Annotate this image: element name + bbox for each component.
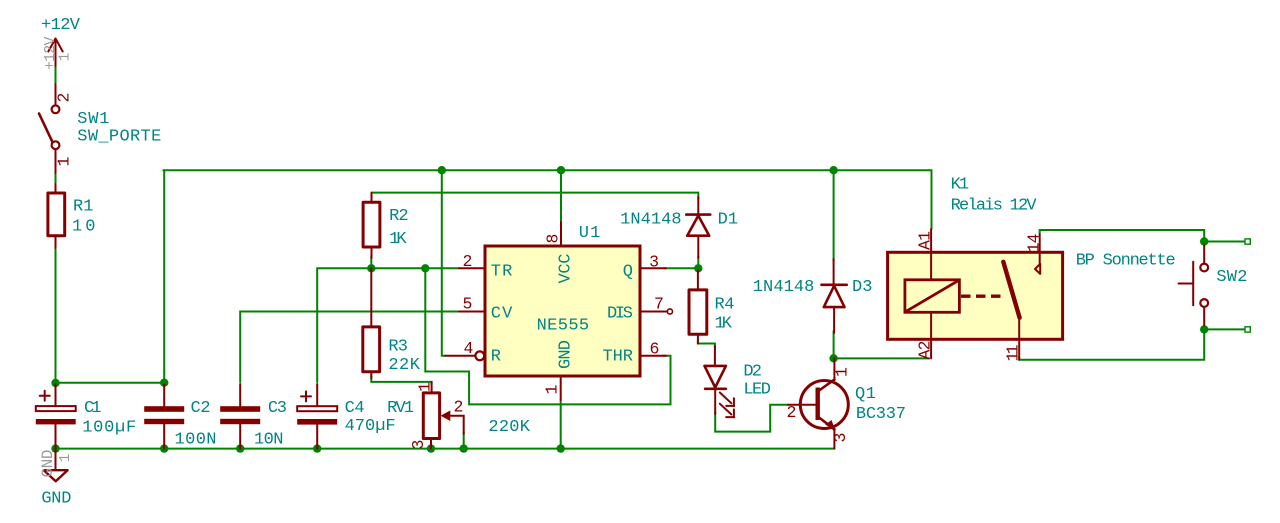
svg-text:R2: R2 (389, 207, 409, 226)
svg-text:R: R (491, 348, 501, 367)
svg-text:1N4148: 1N4148 (753, 278, 815, 297)
wire LED cathode to Q1 base (715, 405, 788, 432)
pin 6 THR (640, 355, 666, 357)
svg-text:220K: 220K (488, 418, 530, 437)
wire Q pin3 to D1/R4 junction (664, 267, 698, 269)
relay coil diagonal (906, 280, 959, 311)
wire TR junction to THR routing under IC (425, 268, 670, 404)
svg-text:1K: 1K (389, 230, 407, 249)
svg-text:SW1: SW1 (77, 110, 109, 129)
svg-text:11: 11 (1004, 344, 1023, 361)
wire RV1 wiper drop to bus (463, 432, 465, 449)
svg-text:LED: LED (743, 381, 771, 400)
junction top bus at reset riser (438, 166, 446, 174)
resistor R2 (363, 193, 380, 258)
svg-text:GND: GND (557, 340, 576, 369)
relay pin 14 (1039, 234, 1041, 264)
wire top VCC bus (163, 170, 931, 229)
junction TR at R2/R3 (367, 264, 375, 272)
svg-text:VCC: VCC (557, 254, 576, 284)
svg-text:22K: 22K (388, 356, 420, 375)
svg-text:C2: C2 (191, 399, 211, 418)
wire bottom GND bus (56, 448, 835, 450)
svg-text:BC337: BC337 (856, 405, 906, 424)
pin 7 DIS with open end (640, 311, 667, 313)
relay K1 body (888, 252, 1063, 339)
svg-text:D3: D3 (852, 278, 873, 297)
svg-text:14: 14 (1025, 233, 1044, 252)
wire relay pin14 to SW2 top (1040, 230, 1205, 242)
svg-text:SW_PORTE: SW_PORTE (77, 128, 161, 147)
svg-text:3: 3 (409, 440, 428, 450)
wire TR net: pin2 to C4 riser (317, 268, 459, 382)
junction C2 bottom (160, 444, 168, 452)
svg-text:2: 2 (454, 398, 464, 417)
wire SW1 to R1 (55, 171, 57, 185)
wire relay A2 to collector junction (834, 357, 929, 359)
capacitor C1 (36, 384, 76, 449)
svg-text:8: 8 (544, 234, 563, 244)
LED D2 (705, 346, 735, 417)
svg-text:1K: 1K (715, 315, 733, 334)
wire SW2 top terminal stub (1204, 241, 1245, 243)
svg-text:C3: C3 (268, 399, 287, 418)
svg-text:GND: GND (41, 490, 71, 509)
svg-text:THR: THR (603, 348, 634, 367)
svg-text:Relais 12V: Relais 12V (951, 197, 1038, 216)
svg-text:NE555: NE555 (537, 316, 590, 335)
svg-text:RV1: RV1 (387, 399, 414, 418)
svg-text:1: 1 (55, 157, 74, 167)
junction IC GND pin (557, 444, 565, 452)
pin 2 TR (459, 267, 485, 269)
wire R1 to C1 junction (55, 247, 57, 383)
svg-text:7: 7 (654, 295, 664, 314)
svg-text:470µF: 470µF (345, 417, 396, 436)
svg-text:3: 3 (831, 433, 850, 443)
capacitor C2 (144, 384, 184, 449)
junction top bus at D3 (829, 166, 837, 174)
junction SW2 top (1200, 237, 1208, 245)
svg-text:2: 2 (787, 403, 797, 422)
op-amp U1 NE555 body (485, 246, 640, 376)
svg-text:K1: K1 (951, 175, 970, 194)
svg-text:6: 6 (650, 340, 660, 359)
terminal square bottom (1245, 327, 1250, 332)
wire reset pin4 riser from top bus (442, 170, 445, 356)
resistor R4 (689, 270, 707, 344)
capacitor C3 (220, 384, 260, 449)
svg-text:1: 1 (57, 453, 74, 462)
svg-text:Q1: Q1 (855, 385, 876, 404)
relay coil (905, 280, 960, 313)
svg-text:+12V: +12V (41, 16, 81, 35)
junction C2 top (160, 379, 168, 387)
svg-text:4: 4 (464, 339, 474, 358)
svg-text:R4: R4 (715, 296, 735, 315)
junction D3/A2/Q1 collector (829, 354, 837, 362)
relay lever contact (1003, 262, 1019, 318)
junction RV1 pin3 (427, 444, 435, 452)
svg-text:100N: 100N (175, 431, 217, 450)
pin 5 CV (459, 311, 485, 313)
svg-text:10N: 10N (254, 431, 284, 450)
transistor Q1 (788, 358, 848, 448)
wire R4 bottom jog to LED (698, 341, 715, 348)
svg-text:D1: D1 (718, 211, 739, 230)
svg-text:R3: R3 (388, 337, 408, 356)
wire SW2 bottom to relay pin11 (1019, 327, 1204, 360)
wire VCC pin8 to bus (560, 170, 562, 222)
junction C1 top (51, 379, 59, 387)
pin 8 VCC (560, 222, 562, 246)
svg-text:SW2: SW2 (1216, 268, 1247, 287)
wire D1 bottom to junction (697, 256, 699, 272)
wire GND pin1 to bottom bus (560, 400, 562, 449)
svg-text:Q: Q (623, 263, 633, 282)
svg-text:A2: A2 (916, 341, 935, 360)
relay fixed contact triangle (1035, 264, 1040, 274)
wire +12V to SW1 (55, 64, 57, 84)
switch SW1 (39, 84, 59, 173)
relay dashed link (961, 295, 1004, 298)
svg-text:100µF: 100µF (82, 419, 136, 438)
capacitor C4 (297, 384, 337, 449)
junction C1 bottom GND (51, 444, 59, 452)
junction RV1 wiper (460, 444, 468, 452)
junction top bus at VCC (557, 166, 565, 174)
wire SW2 bottom terminal stub (1204, 328, 1245, 330)
svg-text:3: 3 (649, 253, 659, 272)
svg-text:TR: TR (491, 263, 513, 282)
wire C2 riser to top bus (163, 170, 165, 383)
svg-text:C4: C4 (345, 399, 365, 418)
wire CV net: pin5 to C3 riser (240, 312, 459, 383)
svg-text:R1: R1 (73, 198, 94, 217)
push button SW2 (1179, 246, 1209, 326)
pin 1 GND (560, 376, 562, 400)
junction C4 bottom (313, 444, 321, 452)
power symbol +12V (48, 39, 62, 67)
svg-text:C1: C1 (84, 399, 102, 418)
junction C3 bottom (236, 444, 244, 452)
pin 4 R with bubble (445, 355, 475, 357)
svg-text:1: 1 (833, 367, 852, 377)
terminal square top (1245, 239, 1250, 244)
resistor R1 (48, 184, 65, 248)
svg-text:1: 1 (416, 382, 435, 392)
svg-text:GND: GND (39, 450, 57, 478)
relay pin A2 (930, 312, 932, 358)
resistor R3 (363, 268, 380, 378)
diode D3 (822, 259, 847, 333)
wire R2 bottom to TR junction (370, 256, 372, 268)
wire R2 top to D1 top (372, 193, 699, 199)
wire D3 bottom to collector junction (833, 331, 835, 358)
junction TR at THR route (421, 264, 429, 272)
diode D1 (686, 197, 710, 258)
relay pin A1 (930, 229, 932, 280)
svg-text:CV: CV (491, 305, 513, 324)
wire R3 bottom to RV1 pin1 (371, 376, 431, 384)
svg-text:D2: D2 (743, 363, 762, 382)
svg-text:A1: A1 (916, 231, 935, 250)
wire C1 top to C2 top horizontal (56, 382, 165, 384)
svg-text:BP Sonnette: BP Sonnette (1076, 252, 1176, 271)
svg-text:U1: U1 (579, 224, 601, 243)
junction SW2 bottom (1200, 325, 1208, 333)
svg-text:DIS: DIS (607, 305, 633, 324)
svg-text:1: 1 (543, 385, 562, 395)
svg-text:1: 1 (57, 52, 74, 61)
junction Q/D1/R4 (694, 264, 702, 272)
relay pin 11 (1018, 318, 1020, 360)
pin 3 Q (640, 267, 666, 269)
svg-text:2: 2 (55, 93, 74, 103)
wire D3 top from bus (833, 170, 835, 261)
ground symbol (44, 449, 68, 482)
svg-text:5: 5 (463, 295, 473, 314)
svg-text:2: 2 (463, 252, 473, 271)
svg-text:1N4148: 1N4148 (620, 211, 682, 230)
potentiometer RV1 (423, 382, 463, 449)
